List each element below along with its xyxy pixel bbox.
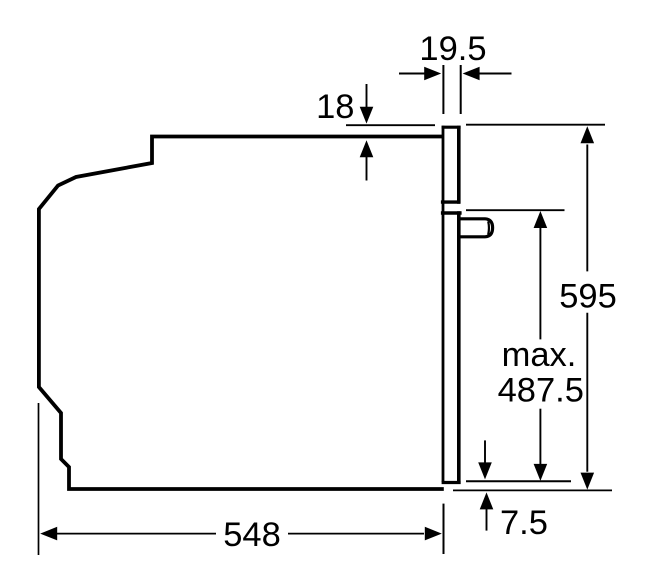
dim 18 down arrow [366, 84, 368, 108]
dim 18 up arrow [366, 156, 368, 181]
svg-text:548: 548 [223, 516, 281, 554]
dim max487.5 line upper [539, 228, 541, 339]
dim 548 ext line right [443, 504, 445, 554]
dim 7.5 down arrow [484, 440, 486, 463]
line A: panel bottom level [466, 480, 571, 482]
dim max487.5 up arrow [534, 211, 548, 228]
dim 595 up arrow [581, 126, 595, 143]
svg-text:max.: max. [502, 336, 577, 374]
dim 19.5 left arrow [399, 73, 426, 75]
top right thin line (panel top level) [466, 124, 605, 126]
dim 548 line left segment [56, 533, 216, 535]
svg-text:7.5: 7.5 [500, 504, 548, 542]
dim 7.5 up arrow [486, 509, 488, 531]
dim max487.5 line lower [539, 409, 541, 464]
svg-text:595: 595 [559, 278, 617, 316]
panel notch bar lower [441, 211, 462, 214]
front panel bottom bar [442, 481, 461, 484]
dim 548 line right segment [288, 533, 424, 535]
dim 595 down arrow [581, 473, 595, 490]
front panel front line lower [457, 211, 461, 484]
svg-text:18: 18 [316, 88, 354, 126]
oven body outline [39, 137, 444, 490]
front panel back line [442, 126, 445, 482]
dim 18 thin line [346, 124, 435, 126]
knob (door handle) [458, 219, 492, 237]
line B: body bottom level [453, 489, 612, 491]
svg-text:19.5: 19.5 [419, 30, 486, 68]
panel notch bar upper [441, 200, 460, 203]
front panel front line upper [457, 126, 461, 204]
dim 548 left arrow [40, 527, 57, 541]
dim 548 right arrow [425, 527, 442, 541]
dim 595 line lower [586, 313, 588, 472]
dim 19.5 right arrow [478, 73, 512, 75]
dim max487.5 down arrow [534, 464, 548, 481]
dim 19.5 ext line left [442, 65, 444, 114]
front panel top bar [442, 126, 461, 129]
svg-text:487.5: 487.5 [498, 372, 584, 410]
knob inner cap arc [487, 221, 490, 234]
dim 595 line upper [586, 145, 588, 272]
knob-top extension line for max dim [466, 209, 565, 211]
dim 548 ext line left [38, 403, 40, 555]
dim 19.5 ext line right [460, 65, 462, 114]
